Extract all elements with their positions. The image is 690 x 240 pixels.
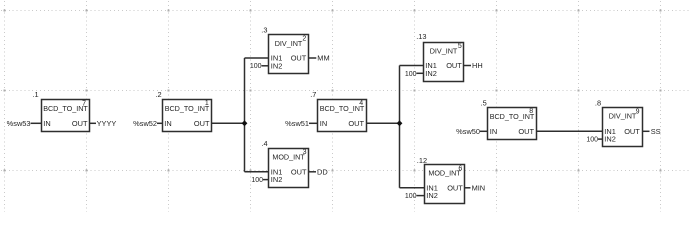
svg-text:DD: DD (317, 167, 328, 176)
svg-text:.3: .3 (261, 26, 267, 35)
svg-text:MOD_INT: MOD_INT (272, 153, 305, 162)
wire %sw52 to U2 IN (157, 122, 162, 124)
svg-text:8: 8 (529, 108, 533, 115)
wire %sw51 to U7 IN (309, 122, 318, 124)
wire 100 to U12 IN2 (417, 195, 425, 197)
wire U13 OUT to HH (464, 65, 471, 67)
svg-text:%sw50: %sw50 (456, 127, 480, 136)
function block .8 DIV_INT (exec 9) (595, 98, 643, 146)
svg-text:%sw51: %sw51 (285, 119, 309, 128)
svg-text:.2: .2 (156, 90, 162, 99)
svg-text:.4: .4 (262, 139, 268, 148)
wire U12 OUT to MIN (465, 187, 471, 189)
net label %sw53 (7, 119, 31, 128)
svg-text:.13: .13 (416, 32, 426, 41)
value label 100 (U13 IN2) (405, 71, 417, 78)
svg-text:SS: SS (651, 127, 661, 136)
net label %sw51 (285, 119, 309, 128)
junction J1 (242, 120, 248, 126)
wire U2 OUT to junction J1 (212, 122, 245, 124)
svg-text:OUT: OUT (446, 61, 462, 70)
svg-text:BCD_TO_INT: BCD_TO_INT (320, 104, 365, 113)
svg-text:MIN: MIN (472, 183, 486, 192)
net label YYYY (97, 119, 117, 128)
wire bus to U4 IN1 (245, 171, 269, 173)
svg-text:100: 100 (250, 63, 262, 70)
wire 100 to U8 IN2 (598, 138, 602, 140)
function block .13 DIV_INT (exec 5) (416, 32, 463, 81)
svg-text:BCD_TO_INT: BCD_TO_INT (165, 104, 210, 113)
net label DD (317, 167, 328, 176)
svg-text:3: 3 (303, 149, 307, 156)
svg-text:IN2: IN2 (425, 69, 437, 78)
svg-text:IN: IN (320, 119, 327, 128)
svg-text:7: 7 (82, 100, 86, 107)
wire U5 OUT to U8 IN1 (537, 130, 603, 132)
svg-text:.1: .1 (33, 90, 39, 99)
wire 100 to U3 IN2 (262, 65, 269, 67)
svg-text:IN: IN (164, 119, 171, 128)
junction J2 (397, 120, 403, 126)
svg-text:IN: IN (490, 127, 497, 136)
svg-text:IN2: IN2 (271, 175, 283, 184)
wire 100 to U13 IN2 (417, 72, 424, 74)
svg-text:.12: .12 (417, 156, 427, 165)
function block .5 BCD_TO_INT (exec 8) (481, 99, 537, 140)
svg-text:%sw52: %sw52 (133, 119, 157, 128)
svg-text:OUT: OUT (72, 119, 88, 128)
wire U4 OUT to DD (309, 171, 316, 173)
svg-text:OUT: OUT (291, 54, 307, 63)
svg-text:DIV_INT: DIV_INT (430, 47, 458, 56)
svg-text:IN: IN (43, 119, 50, 128)
svg-text:OUT: OUT (194, 119, 210, 128)
function block .12 MOD_INT (exec 6) (417, 156, 465, 204)
wire bus to U3 IN1 (245, 57, 269, 59)
svg-text:.8: .8 (595, 98, 601, 107)
svg-text:HH: HH (472, 61, 483, 70)
svg-text:IN2: IN2 (604, 135, 616, 144)
svg-text:4: 4 (359, 100, 363, 107)
function block .4 MOD_INT (exec 3) (262, 139, 309, 187)
svg-text:BCD_TO_INT: BCD_TO_INT (490, 112, 535, 121)
wire U1 OUT to YYYY (90, 122, 96, 124)
function block .3 DIV_INT (exec 2) (261, 26, 308, 74)
vertical bus wire from U3 IN1 down to U4 IN1 (244, 58, 246, 172)
net label HH (472, 61, 483, 70)
value label 100 (U4 IN2) (251, 177, 263, 184)
svg-text:IN2: IN2 (271, 61, 283, 70)
svg-text:.5: .5 (481, 99, 487, 108)
svg-text:5: 5 (458, 43, 462, 50)
svg-text:IN2: IN2 (426, 191, 438, 200)
wire 100 to U4 IN2 (263, 179, 269, 181)
svg-text:OUT: OUT (624, 127, 640, 136)
svg-text:YYYY: YYYY (97, 119, 117, 128)
svg-text:MM: MM (317, 54, 329, 63)
svg-text:.7: .7 (310, 90, 316, 99)
vertical bus wire from U13 IN1 down to U12 IN1 (399, 66, 401, 188)
svg-text:%sw53: %sw53 (7, 119, 31, 128)
wire %sw53 to U1 IN (31, 122, 42, 124)
wire %sw50 to U5 IN (480, 130, 488, 132)
net label MM (317, 54, 329, 63)
svg-text:100: 100 (586, 137, 598, 144)
wire bus to U13 IN1 (400, 65, 424, 67)
net label MIN (472, 183, 486, 192)
svg-text:OUT: OUT (291, 167, 307, 176)
svg-text:OUT: OUT (447, 183, 463, 192)
value label 100 (U3 IN2) (250, 63, 262, 70)
svg-text:100: 100 (405, 71, 417, 78)
svg-text:9: 9 (636, 108, 640, 115)
value label 100 (U8 IN2) (586, 137, 598, 144)
net label SS (651, 127, 661, 136)
wire U7 OUT to junction J2 (367, 122, 400, 124)
net label %sw52 (133, 119, 157, 128)
svg-text:6: 6 (458, 165, 462, 172)
function block .7 BCD_TO_INT (exec 4) (310, 90, 366, 131)
svg-text:OUT: OUT (348, 119, 364, 128)
svg-text:MOD_INT: MOD_INT (428, 169, 461, 178)
wire U3 OUT to MM (309, 57, 317, 59)
wire U8 OUT to SS (642, 130, 650, 132)
function block .2 BCD_TO_INT (exec 1) (156, 90, 212, 131)
svg-text:DIV_INT: DIV_INT (275, 39, 303, 48)
value label 100 (U12 IN2) (405, 193, 417, 200)
net label %sw50 (456, 127, 480, 136)
svg-text:100: 100 (405, 193, 417, 200)
svg-text:1: 1 (205, 100, 209, 107)
svg-text:2: 2 (302, 35, 306, 42)
wire bus to U12 IN1 (400, 187, 425, 189)
svg-text:DIV_INT: DIV_INT (609, 112, 637, 121)
function block .1 BCD_TO_INT (exec 7) (33, 90, 90, 131)
svg-text:OUT: OUT (518, 127, 534, 136)
svg-text:100: 100 (251, 177, 263, 184)
